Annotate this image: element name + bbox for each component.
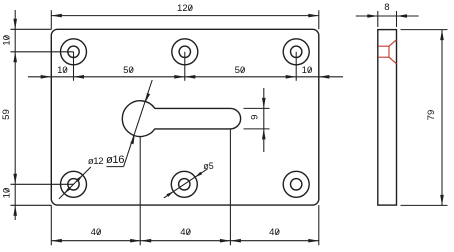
svg-text:10: 10	[1, 35, 12, 46]
dim row arrow at right hole	[286, 75, 297, 79]
left dim arrow to bottom edge	[13, 205, 17, 216]
svg-text:10: 10	[1, 188, 12, 199]
bottom dim 40 text 2	[180, 227, 191, 238]
bottom dim line	[51, 240, 319, 242]
extension top-left hole vertical	[73, 52, 75, 81]
dim 9 line vertical	[263, 88, 265, 152]
svg-text:9: 9	[250, 115, 261, 120]
extension plate right edge down	[318, 205, 320, 245]
dim 10 text right	[302, 65, 313, 76]
leader o5 line	[164, 169, 208, 198]
svg-text:10: 10	[302, 65, 313, 76]
dim row arrow at plate left	[41, 75, 52, 79]
dim row arrow at first hole	[74, 75, 85, 79]
extension slot circle center vertical	[139, 137, 141, 246]
hole top-left outer circle o12	[61, 39, 87, 65]
dim 79 line	[441, 30, 443, 206]
hole bottom-left outer circle o12	[61, 171, 87, 197]
dim 79 extension bottom	[401, 204, 448, 206]
svg-text:8: 8	[384, 2, 389, 13]
bottom dim 40 text 1	[91, 227, 102, 238]
centerline top-left hole horizontal	[11, 51, 74, 53]
dim 79 text	[426, 110, 437, 121]
dim 9 arrow top	[262, 98, 266, 109]
label o5 text	[203, 161, 213, 171]
dim 120 line	[51, 15, 319, 17]
left dim 10 top text	[1, 35, 12, 46]
dim row arrows at middle hole	[174, 75, 195, 79]
svg-text:40: 40	[180, 227, 191, 238]
side view outline	[378, 30, 397, 206]
extension plate top edge left	[11, 28, 52, 30]
dim 8 arrows	[367, 14, 407, 18]
dim 10 text left	[57, 65, 68, 76]
svg-text:50: 50	[235, 65, 246, 76]
dim 50 text right	[235, 65, 246, 76]
svg-text:59: 59	[1, 109, 12, 120]
bottom dim arrows at cap center	[220, 239, 241, 243]
dim 50 text left	[123, 65, 134, 76]
leader o16 arrows	[130, 93, 150, 144]
dim row line	[28, 76, 343, 78]
hole top-middle inner circle o5	[179, 46, 190, 57]
hole bottom-right outer circle o12	[283, 171, 309, 197]
left dim arrow to top edge	[13, 19, 17, 30]
leader o12 line	[59, 167, 91, 199]
svg-text:40: 40	[91, 227, 102, 238]
centerline bottom-left hole horizontal	[11, 183, 74, 185]
dim 9 extension top	[244, 107, 270, 109]
svg-text:40: 40	[269, 227, 280, 238]
svg-text:50: 50	[123, 65, 134, 76]
label o16 text	[106, 154, 124, 166]
bottom dim left arrow	[51, 239, 62, 243]
hole top-right outer circle o12	[283, 39, 309, 65]
dim 9 arrow bottom	[262, 129, 266, 140]
leader o12 arrows	[64, 175, 82, 193]
dim 8 text	[384, 2, 389, 13]
bottom dim arrows at slot center	[130, 239, 151, 243]
label o12 text	[88, 156, 103, 167]
extension top-middle hole vertical	[184, 52, 186, 81]
hole top-middle outer circle o12	[172, 39, 198, 65]
hole top-right inner circle o5	[291, 46, 302, 57]
extension slot cap center vertical	[229, 129, 231, 245]
hole bottom-middle outer circle o12	[171, 171, 197, 197]
dim 9 extension bottom	[244, 128, 270, 130]
slot keyhole outline o16 circle with slot	[122, 101, 240, 137]
svg-text:ø12: ø12	[88, 156, 103, 167]
svg-text:ø5: ø5	[203, 161, 213, 171]
extension top-right hole vertical	[295, 52, 297, 81]
leader o16 line	[124, 80, 153, 167]
left dim arrow to hole row	[13, 52, 17, 63]
left dim line vertical	[14, 10, 16, 220]
bottom dim 40 text 3	[269, 227, 280, 238]
svg-text:ø16: ø16	[106, 154, 124, 166]
dim 79 extension top	[401, 29, 448, 31]
dim row arrow at plate right	[319, 75, 330, 79]
left dim 10 bottom text	[1, 188, 12, 199]
dim 8 extension left	[377, 11, 379, 27]
label o16 underline	[107, 166, 124, 168]
hole bottom-middle inner circle o5	[179, 179, 190, 190]
hole bottom-left inner circle o5	[68, 179, 79, 190]
dim 8 line	[356, 15, 419, 17]
dim 120 text	[177, 3, 193, 14]
leader o5 arrows	[166, 172, 202, 197]
svg-text:79: 79	[426, 110, 437, 121]
hole bottom-right inner circle o5	[291, 179, 302, 190]
dim 120 right arrow	[308, 14, 319, 18]
countersink hole red section	[378, 40, 397, 64]
extension plate left edge up	[50, 10, 52, 29]
dim 120 left arrow	[51, 14, 62, 18]
extension plate bottom edge left	[11, 204, 52, 206]
bottom dim right arrow	[308, 239, 319, 243]
extension plate left edge down	[50, 205, 52, 245]
dim 8 extension right	[396, 11, 398, 27]
left dim arrow to bottom hole row	[13, 174, 17, 185]
dim 79 arrows	[440, 30, 444, 206]
extension plate right edge up	[318, 10, 320, 29]
svg-text:10: 10	[57, 65, 68, 76]
dim 9 text	[250, 115, 261, 120]
hole top-left inner circle o5	[68, 46, 79, 57]
plate outline front view	[51, 29, 319, 205]
left dim 59 text	[1, 109, 12, 120]
